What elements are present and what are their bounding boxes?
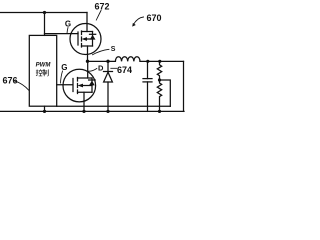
wire ground rail — [0, 110, 184, 112]
svg-text:672: 672 — [95, 2, 110, 12]
wire D leader — [89, 69, 97, 72]
wire G leader lower — [61, 71, 63, 83]
resistor R2 lower — [157, 80, 161, 111]
wire box bottom to ground rail — [44, 106, 46, 111]
wire S leader — [93, 49, 110, 55]
node diode ground junction — [106, 110, 109, 113]
transistor Q673 (lower MOSFET) — [63, 69, 96, 102]
control box U676 PWM — [29, 35, 56, 106]
wire top gate — [45, 33, 79, 35]
label 控 (drawn glyph) — [36, 69, 42, 76]
wire 672 leader — [96, 11, 101, 21]
wire drain Q673 lower — [87, 61, 89, 78]
svg-text:G: G — [65, 19, 71, 28]
node diode junction — [106, 60, 109, 63]
wire source Q672 — [87, 46, 89, 61]
capacitor C output — [143, 61, 152, 111]
node cap junction — [146, 60, 149, 63]
resistor R1 upper — [157, 61, 161, 80]
wire lower gate — [57, 84, 73, 86]
transistor Q672 (upper MOSFET) — [70, 24, 101, 55]
wire 676 leader — [14, 81, 29, 91]
node R2 ground junction — [158, 110, 161, 113]
wire rail to control box — [44, 13, 46, 36]
wire right edge vertical — [183, 61, 185, 111]
wire source Q673 to rail — [83, 92, 85, 111]
inductor L — [115, 57, 140, 62]
wire top input rail — [0, 12, 87, 14]
diode D674 freewheel — [104, 61, 113, 111]
svg-text:G: G — [61, 63, 67, 72]
svg-text:S: S — [111, 46, 116, 53]
label 制 (drawn glyph) — [43, 69, 49, 76]
wire output top — [140, 60, 184, 62]
wire G leader top — [67, 28, 68, 34]
svg-text:PWM: PWM — [36, 63, 52, 69]
node S junction — [86, 60, 89, 63]
node resistor junction — [158, 60, 161, 63]
node source ground junction — [82, 110, 85, 113]
wire drain Q672 — [86, 13, 88, 32]
svg-text:676: 676 — [3, 76, 18, 86]
wire 674 leader — [111, 67, 117, 69]
svg-text:674: 674 — [117, 65, 132, 75]
wire box corner to source — [57, 105, 171, 107]
wire 670 arrow — [133, 17, 143, 25]
wire parallel loop — [160, 80, 171, 106]
wire switch node horizontal — [88, 60, 116, 62]
svg-text:670: 670 — [147, 13, 162, 23]
node rail junction — [43, 11, 46, 14]
node divider mid — [158, 78, 161, 81]
node box ground junction — [43, 110, 46, 113]
